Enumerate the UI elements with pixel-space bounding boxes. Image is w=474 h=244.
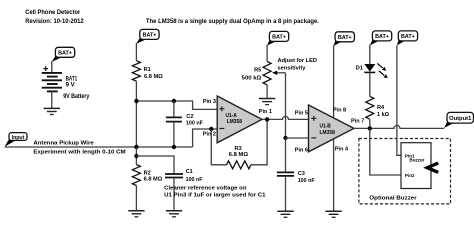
ground (pin 4)	[325, 211, 341, 217]
op-amp U1-A LM358	[217, 96, 262, 143]
note about LM358 package	[146, 18, 319, 25]
battery BAT1 9V	[42, 66, 90, 100]
wire U1-B pin 4 to ground	[333, 139, 335, 211]
wire battery negative stem	[51, 91, 53, 108]
svg-text:Input: Input	[12, 135, 25, 141]
svg-text:Experiment with length 0-10 CM: Experiment with length 0-10 CM	[33, 150, 125, 156]
ground (battery)	[44, 108, 60, 114]
svg-text:LM358: LM358	[227, 119, 242, 125]
svg-text:BAT+: BAT+	[58, 51, 72, 57]
svg-text:Cleaner reference voltage on: Cleaner reference voltage on	[164, 186, 247, 192]
svg-text:Optional Buzzer: Optional Buzzer	[369, 195, 417, 201]
power flag BAT+ (D1)	[370, 31, 392, 46]
resistor R4 1 kΩ	[366, 96, 390, 119]
svg-text:sensitivity: sensitivity	[278, 65, 307, 71]
svg-text:Pin 4: Pin 4	[335, 147, 349, 153]
svg-text:BAT+: BAT+	[338, 35, 352, 41]
pin label Pin 1	[259, 109, 272, 115]
svg-text:D1: D1	[356, 66, 364, 72]
svg-text:Pin 5: Pin 5	[295, 111, 308, 117]
svg-text:Pin 3: Pin 3	[203, 99, 216, 105]
svg-text:U1-A: U1-A	[226, 113, 237, 119]
svg-text:Pin 6: Pin 6	[295, 147, 308, 153]
ground (C1)	[166, 211, 182, 217]
wire BAT+ to R1	[135, 43, 137, 61]
svg-text:R2: R2	[144, 171, 151, 177]
input flag Input	[5, 133, 27, 147]
svg-text:BAT+: BAT+	[401, 34, 415, 40]
svg-text:Pin 8: Pin 8	[333, 108, 346, 114]
wire U1-A pin1 to U1-B pin5 (hop over wiper)	[262, 116, 309, 119]
ground (R2)	[128, 211, 144, 217]
node junction antenna/R1R2	[134, 145, 138, 149]
svg-text:BAT+: BAT+	[272, 35, 286, 41]
pin label Pin 8	[333, 108, 346, 114]
node junction antenna/C2	[172, 145, 176, 149]
svg-text:C3: C3	[298, 171, 305, 177]
power flag BAT+ (battery)	[52, 47, 75, 62]
svg-text:6.8 MΩ: 6.8 MΩ	[229, 152, 249, 158]
svg-text:BAT+: BAT+	[143, 33, 157, 39]
svg-text:Adjust for LED: Adjust for LED	[278, 58, 317, 64]
svg-text:R4: R4	[377, 105, 385, 111]
svg-text:100 nF: 100 nF	[186, 120, 203, 126]
LED D1	[356, 63, 388, 78]
wire R5 to ground	[266, 85, 268, 99]
svg-text:Cell Phone Detector: Cell Phone Detector	[25, 9, 81, 16]
node junction C2 top	[172, 99, 176, 103]
svg-text:Revision: 10-10-2012: Revision: 10-10-2012	[25, 18, 84, 25]
svg-text:Pin 1: Pin 1	[259, 109, 272, 115]
svg-text:C1: C1	[186, 169, 193, 175]
buzzer component	[401, 143, 438, 189]
svg-text:R1: R1	[144, 67, 151, 73]
wire antenna node to R2	[135, 147, 137, 165]
svg-text:Output1: Output1	[449, 116, 472, 122]
optional buzzer dashed enclosure	[359, 139, 451, 204]
ground (C3)	[277, 211, 293, 217]
svg-text:The LM358 is a single supply d: The LM358 is a single supply dual OpAmp …	[146, 18, 319, 25]
svg-text:100 nF: 100 nF	[186, 177, 203, 183]
capacitor C2 100 nF	[166, 101, 203, 147]
node junction pin2/R3	[209, 127, 213, 131]
power flag BAT+ (buzzer)	[397, 31, 418, 46]
wire node to U1-B pin 6	[286, 137, 309, 139]
wire D1 to R4	[369, 72, 371, 96]
pin label Pin 4	[335, 147, 349, 153]
wire R2 node to C1	[136, 156, 174, 174]
pin label Pin 2	[203, 132, 216, 138]
potentiometer R5 500 kΩ	[242, 61, 286, 85]
wire R2 to ground	[135, 186, 137, 211]
svg-text:6.8 MΩ: 6.8 MΩ	[144, 74, 163, 80]
node junction wiper/pin6/C3	[283, 136, 287, 140]
resistor R3 6.8 MΩ	[227, 146, 251, 169]
svg-text:100 nF: 100 nF	[298, 178, 315, 184]
svg-text:BAT+: BAT+	[375, 34, 389, 40]
wire U1-B pin7 to Output1 (hop over buzzer BAT wire)	[354, 125, 444, 128]
svg-text:LM358: LM358	[320, 130, 335, 136]
svg-text:U1-B: U1-B	[320, 124, 331, 130]
wire R5 wiper down to pin6 node (crosses pin1 wire)	[285, 73, 287, 138]
wire BAT+ down to buzzer pin1	[397, 45, 401, 155]
capacitor C3 100 nF	[277, 138, 315, 211]
op-amp U1-B LM358	[309, 105, 355, 152]
resistor R2 6.8 MΩ	[132, 165, 162, 186]
svg-text:Pin2: Pin2	[405, 173, 415, 178]
pin label Pin 5	[295, 111, 308, 117]
wire battery positive stem	[51, 61, 53, 73]
note cleaner reference voltage	[164, 186, 265, 199]
pin label Pin 3	[203, 99, 216, 105]
power flag BAT+ (R1)	[136, 29, 159, 43]
svg-text:9V Battery: 9V Battery	[63, 93, 90, 100]
antenna labels	[33, 141, 125, 156]
wire antenna node to U1-A pin 2	[193, 129, 218, 147]
svg-text:1 kΩ: 1 kΩ	[377, 112, 389, 118]
node junction R4/output/buzzer	[368, 126, 372, 130]
svg-text:Antenna Pickup Wire: Antenna Pickup Wire	[33, 141, 94, 147]
wire R3 up to pin1 node	[251, 119, 267, 164]
pin label Pin 6	[295, 147, 308, 153]
svg-text:C2: C2	[186, 114, 193, 120]
node junction R1/pin3	[134, 99, 138, 103]
svg-text:Pin 2: Pin 2	[203, 132, 216, 138]
svg-text:500 kΩ: 500 kΩ	[242, 75, 262, 81]
power flag BAT+ (R5)	[267, 31, 289, 45]
wire BAT+ to D1	[369, 45, 371, 64]
node junction pin1/R3	[265, 117, 269, 121]
capacitor C1 100 nF	[165, 169, 203, 211]
wire antenna pickup (node IN)	[5, 146, 193, 148]
svg-text:6.8 MΩ: 6.8 MΩ	[144, 177, 163, 183]
output flag Output1	[444, 112, 473, 128]
power flag BAT+ (U1-B pin 8)	[334, 32, 355, 46]
note adjust for LED sensitivity	[278, 58, 317, 71]
ground (R5)	[259, 99, 275, 105]
wire pin2 node down to R3	[211, 129, 226, 165]
pin label Pin 7	[351, 119, 364, 125]
node junction R2/C1	[134, 154, 138, 158]
wire BAT+ to R5	[266, 45, 268, 62]
wire R1 bottom to antenna node	[135, 81, 137, 147]
svg-text:Pin 7: Pin 7	[351, 119, 364, 125]
wire R4 to output node	[369, 119, 371, 128]
wire output node down to buzzer pin2	[370, 128, 401, 175]
wire BAT+ to U1-B pin 8	[333, 45, 335, 118]
svg-text:R5: R5	[254, 67, 261, 73]
svg-text:U1 Pin3 if 1uF or larger used: U1 Pin3 if 1uF or larger used for C1	[164, 193, 265, 199]
svg-text:Buzzer: Buzzer	[409, 158, 424, 163]
wire node R1/C2 to U1-A pin 3	[136, 101, 217, 109]
svg-text:9 V: 9 V	[66, 82, 76, 89]
title text "Cell Phone Detector"	[25, 9, 84, 25]
resistor R1 6.8 MΩ	[132, 61, 163, 81]
